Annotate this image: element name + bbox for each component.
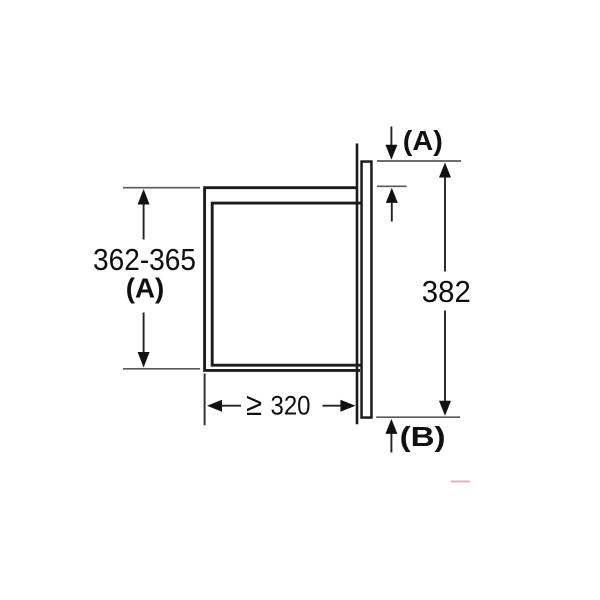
svg-text:320: 320 [271,391,311,421]
top (A) down arrow [390,127,392,147]
appliance outer body [205,188,360,371]
382 dimension down arrow [444,311,446,402]
(B) up arrow [385,419,397,434]
pink marker line [451,481,470,483]
svg-text:(A): (A) [126,273,165,304]
appliance inner cavity [212,203,361,365]
svg-text:≥: ≥ [246,386,262,422]
small up arrow under line [386,188,398,203]
extension line bottom left [123,368,200,370]
width dimension right arrow [323,405,341,407]
left dimension up arrow [143,204,145,240]
door front panel [362,162,372,418]
width dimension left arrow [207,400,222,412]
dimension line top right (A) [377,160,461,162]
svg-text:(A): (A) [403,125,443,156]
svg-text:382: 382 [422,274,471,309]
dimension line below top (A) [377,185,407,187]
left dimension down arrow [143,313,145,354]
svg-text:(B): (B) [400,421,446,452]
382 dimension up arrow [439,163,451,178]
dimension line bottom right [376,416,460,418]
extension line top left [123,187,200,189]
cabinet front vertical line [356,144,359,425]
bottom left extension line [204,374,206,426]
